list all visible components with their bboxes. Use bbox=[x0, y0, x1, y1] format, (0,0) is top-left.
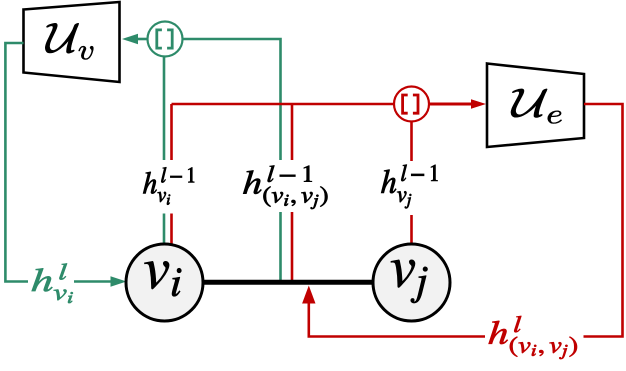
node v_j circle bbox=[373, 244, 450, 321]
wire: red riser down to v_i bbox=[170, 104, 173, 160]
label h^l-1_(vi,vj) bbox=[243, 166, 327, 210]
green concat operator [] circle bbox=[148, 22, 183, 57]
label v_j bbox=[391, 260, 427, 303]
arrowhead green into v_i bbox=[111, 276, 127, 286]
label h^l_vi green bbox=[32, 264, 73, 304]
wire: red riser down to edge bbox=[291, 104, 294, 160]
label h^l_(vi,vj) red bbox=[489, 316, 577, 359]
wire: red horizontal bus y=104 from v_i riser to concat circle bbox=[172, 103, 394, 106]
wire: green concat circle to U_v arrow bbox=[138, 38, 148, 41]
arrowhead red into U_e bbox=[471, 99, 486, 109]
U_e trapezoid (edge update function) bbox=[487, 64, 584, 148]
label U_e bbox=[511, 89, 562, 124]
label h^l-1_vi bbox=[143, 167, 194, 204]
wire: green vertical from concat down to v_i (h^l-1_vi) bbox=[163, 57, 166, 161]
arrowhead green into U_v bbox=[122, 34, 138, 44]
label U_v bbox=[45, 23, 93, 59]
label h^l-1_vj bbox=[381, 165, 437, 209]
edge between v_i and v_j (thick black) bbox=[200, 280, 375, 285]
wire: red concat to U_e arrow bbox=[430, 103, 471, 106]
node v_i circle bbox=[126, 244, 203, 321]
wire: green from label h^l_vi to arrow into v_i bbox=[74, 280, 112, 283]
wire: red bottom from label to corner, then up arrow into edge bbox=[309, 302, 485, 337]
wire: red below concat circle down to v_j bbox=[410, 122, 413, 161]
U_v trapezoid (node update function) bbox=[24, 2, 120, 82]
red concat operator [] circle bbox=[394, 87, 429, 122]
arrowhead red up into edge bbox=[302, 286, 315, 304]
wire: red output of U_e, down right side and along bottom bbox=[584, 104, 623, 337]
wire: green feedback from U_v left edge down to node v_i bbox=[5, 43, 28, 282]
label v_i bbox=[145, 261, 182, 296]
wire: green from concat right, over and down to edge (h^l-1_edge) bbox=[183, 39, 281, 160]
